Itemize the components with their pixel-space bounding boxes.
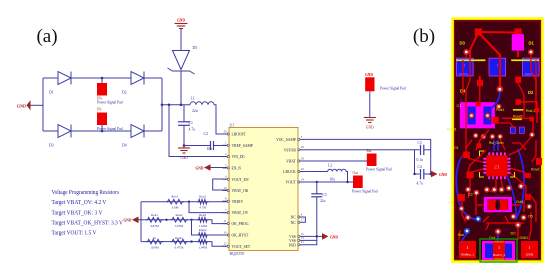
silkscreen resistor bar Rok3 xyxy=(512,119,522,121)
svg-text:C1: C1 xyxy=(457,104,462,108)
svg-text:D3: D3 xyxy=(49,144,54,148)
component IC U1 (PCB) xyxy=(483,152,510,179)
component L2 footprint xyxy=(484,197,512,212)
svg-text:VOUT_SET: VOUT_SET xyxy=(232,245,251,249)
pin 3 VOC_SAMP xyxy=(276,135,304,142)
wire bridge output to L1 xyxy=(162,104,190,106)
svg-text:O1: O1 xyxy=(454,146,459,150)
via top right xyxy=(528,49,534,55)
svg-text:C3: C3 xyxy=(468,193,473,197)
svg-text:GND: GND xyxy=(366,126,374,130)
svg-text:18: 18 xyxy=(301,156,305,160)
wire VIN_DC net xyxy=(169,105,229,157)
svg-text:Target VBAT_OK_HYST: 3.3 V: Target VBAT_OK_HYST: 3.3 V xyxy=(52,219,124,226)
resistor Rok1 4.87M xyxy=(146,213,163,228)
svg-text:VOUT: VOUT xyxy=(286,181,297,185)
resistor Rout1 0.475k xyxy=(171,236,189,250)
svg-text:C4: C4 xyxy=(448,201,453,205)
via left mid 2 xyxy=(473,190,479,196)
svg-text:Rout1: Rout1 xyxy=(447,128,457,132)
via bottom 2 xyxy=(475,216,481,222)
via L1 pad A xyxy=(469,113,475,119)
wire stub to IN- pad xyxy=(101,125,103,131)
node junction VIN branch xyxy=(168,104,171,107)
node VOUT/L2 junction xyxy=(346,181,348,183)
node junction top center xyxy=(101,77,104,80)
pin 8 VRDIV xyxy=(223,197,244,204)
wire trace top pad to center via xyxy=(479,33,500,88)
svg-text:NetD1_2: NetD1_2 xyxy=(524,72,537,76)
pad mid right top xyxy=(516,99,522,105)
via mid right low xyxy=(526,204,532,210)
svg-text:VREF_SAMP: VREF_SAMP xyxy=(232,144,253,148)
wire NC strap xyxy=(304,217,307,222)
pin 13 VBAT_OK xyxy=(223,186,249,193)
svg-text:14: 14 xyxy=(301,177,305,181)
svg-text:Power Signal Pad: Power Signal Pad xyxy=(366,168,392,172)
svg-text:VOUT_EN: VOUT_EN xyxy=(232,178,249,182)
svg-text:VSTOR: VSTOR xyxy=(284,148,297,152)
svg-text:EN_N: EN_N xyxy=(232,167,242,171)
wire VSS strap vertical xyxy=(316,236,318,240)
via bat xyxy=(464,228,470,234)
pin 17 NC xyxy=(291,218,305,225)
svg-text:U1: U1 xyxy=(230,123,235,127)
pad right edge xyxy=(536,158,542,165)
svg-text:C5: C5 xyxy=(323,193,327,197)
svg-text:Bat: Bat xyxy=(458,233,465,237)
pad left of L2 xyxy=(458,194,465,201)
svg-text:VRDIV: VRDIV xyxy=(232,200,244,204)
svg-text:Rok1: Rok1 xyxy=(151,213,158,217)
PCB board background xyxy=(453,19,543,262)
svg-text:GND: GND xyxy=(330,235,338,239)
via ic row 2 xyxy=(491,187,497,193)
node Rok1/Rok2 junction xyxy=(165,219,167,221)
svg-text:1.04M: 1.04M xyxy=(198,246,207,250)
pad GND Power Signal Pad xyxy=(365,73,406,91)
diode D4 xyxy=(122,125,144,148)
ground earth symbol xyxy=(364,118,376,130)
via row b xyxy=(481,134,487,140)
pin 7 VBAT_OV xyxy=(223,208,249,215)
wire trace top left pad to D5 xyxy=(478,31,518,34)
via ic row 3 xyxy=(499,187,505,193)
wire GND to bridge left rail xyxy=(31,104,44,106)
wire trace resistor row xyxy=(502,117,530,119)
svg-text:Rok3: Rok3 xyxy=(199,213,206,217)
component C5 footprint with courtyard xyxy=(480,239,517,262)
svg-text:LBUCK: LBUCK xyxy=(283,170,296,174)
svg-text:4.7M: 4.7M xyxy=(199,206,206,210)
pin 19 VSTOR xyxy=(284,145,305,152)
pin 15 VSS xyxy=(289,232,305,239)
svg-text:1: 1 xyxy=(464,64,466,68)
wire trace module1 to pad xyxy=(479,76,481,80)
svg-text:VBAT_OV: VBAT_OV xyxy=(232,211,249,215)
capacitor C2 xyxy=(204,132,214,151)
via gnd xyxy=(515,222,521,228)
svg-text:12: 12 xyxy=(224,242,228,246)
svg-text:4.87M: 4.87M xyxy=(150,224,159,228)
pad right edge mid xyxy=(530,117,535,122)
pin 14 VOUT xyxy=(286,177,305,184)
svg-text:Rov2: Rov2 xyxy=(199,195,206,199)
via out xyxy=(495,228,501,234)
svg-text:D4: D4 xyxy=(122,144,127,148)
capacitor C3 0.1u xyxy=(417,141,431,162)
via right mid xyxy=(518,183,524,189)
svg-text:Rst_Grmn: Rst_Grmn xyxy=(489,141,504,145)
component diode module 1 xyxy=(456,58,473,76)
node junction bottom center xyxy=(101,130,104,133)
svg-text:GND: GND xyxy=(17,103,26,108)
svg-text:GND: GND xyxy=(124,219,132,223)
wire VOC_SAMP net xyxy=(305,139,431,174)
svg-text:10.0M: 10.0M xyxy=(150,246,159,250)
wire bridge right rail xyxy=(161,78,163,131)
svg-text:LBOOST: LBOOST xyxy=(232,133,247,137)
via L1 pad B xyxy=(485,113,491,119)
component L1 footprint xyxy=(460,101,495,128)
pin 21 PAD xyxy=(289,240,305,247)
via row e xyxy=(529,132,535,138)
via row a xyxy=(473,133,479,139)
svg-text:VBAT: VBAT xyxy=(286,160,296,164)
wire VSS to GND xyxy=(305,235,322,237)
svg-text:C4: C4 xyxy=(418,165,422,169)
resistor Rov2 4.7M xyxy=(197,195,209,210)
svg-text:Target VOUT: 1.5 V: Target VOUT: 1.5 V xyxy=(52,230,97,237)
wire D5 to node xyxy=(180,71,182,105)
pin 20 LBOOST xyxy=(223,129,247,136)
svg-text:10: 10 xyxy=(224,230,228,234)
svg-text:Out1: Out1 xyxy=(516,200,523,204)
diode D1 xyxy=(49,72,71,95)
blue trace bottom center xyxy=(497,233,499,245)
blue trace bottom left diag xyxy=(459,233,467,248)
pad right of IC xyxy=(524,173,531,178)
svg-text:11: 11 xyxy=(224,219,227,223)
pin 4 VOUT_EN xyxy=(223,175,249,182)
svg-text:Voltage Programming Resistors: Voltage Programming Resistors xyxy=(52,189,120,196)
diode D3 xyxy=(49,125,71,148)
node VOUT/C5 junction xyxy=(316,181,318,183)
pad left of IC big xyxy=(467,171,474,178)
svg-text:0.1u: 0.1u xyxy=(417,158,423,162)
svg-text:GND: GND xyxy=(439,173,447,177)
svg-text:17: 17 xyxy=(301,218,305,222)
svg-text:BQ25570: BQ25570 xyxy=(230,252,245,256)
wire PCB red trace mesh xyxy=(459,55,536,240)
svg-text:D5: D5 xyxy=(193,46,198,50)
pad right of L1 xyxy=(492,117,498,124)
resistor Rov1 3.6M xyxy=(166,195,184,210)
wire trace D5 down xyxy=(517,50,519,57)
svg-text:21: 21 xyxy=(494,165,500,171)
svg-text:PAD: PAD xyxy=(289,243,296,247)
wire VRDIV row xyxy=(141,201,229,203)
svg-text:DC: DC xyxy=(511,232,517,236)
wire VBAT_OV jog xyxy=(189,202,229,213)
svg-text:NetC5_2: NetC5_2 xyxy=(493,253,506,257)
svg-text:Power Signal Pad: Power Signal Pad xyxy=(380,87,406,91)
svg-text:GND: GND xyxy=(196,166,204,170)
pin 18 VBAT xyxy=(286,156,304,163)
svg-text:4.7u: 4.7u xyxy=(189,128,196,132)
svg-text:1: 1 xyxy=(529,245,531,250)
ground GND (C3/C4) xyxy=(431,171,447,178)
svg-text:D2: D2 xyxy=(122,91,127,95)
wire bridge left rail xyxy=(42,78,44,131)
ground GND (above D5) xyxy=(175,19,188,29)
svg-text:Out: Out xyxy=(353,171,358,175)
svg-text:10u: 10u xyxy=(207,147,213,151)
pad top right xyxy=(514,28,521,35)
silkscreen IC corner brackets xyxy=(480,151,515,177)
pin 5 EN_N xyxy=(223,163,242,170)
via row d xyxy=(497,134,503,140)
wire VOUT net xyxy=(305,181,353,183)
svg-text:21: 21 xyxy=(301,240,305,244)
wire trace top pad down left xyxy=(470,33,478,57)
ground GND (VSS) xyxy=(322,233,338,240)
silkscreen resistor bar Rok2 xyxy=(513,109,525,111)
node VSS/C5 junction xyxy=(316,235,318,237)
svg-text:VBAT_OK: VBAT_OK xyxy=(232,189,249,193)
capacitor C5 22u xyxy=(311,182,327,236)
svg-text:3.6M: 3.6M xyxy=(172,206,179,210)
ground GND (left input) xyxy=(17,100,31,110)
blue trace bottom layer left arc xyxy=(456,158,481,221)
svg-text:Target VBAT_OV: 4.2 V: Target VBAT_OV: 4.2 V xyxy=(52,199,107,206)
blue trace mid diag xyxy=(507,176,516,220)
svg-text:Rok2: Rok2 xyxy=(176,213,183,217)
svg-text:1: 1 xyxy=(467,245,469,250)
svg-text:C3: C3 xyxy=(418,141,422,145)
pad above IC xyxy=(476,143,481,148)
via mid xyxy=(496,104,502,110)
svg-text:Rout1: Rout1 xyxy=(175,236,183,240)
pad Out Power Signal Pad xyxy=(352,171,378,194)
wire GND to bus xyxy=(139,219,142,221)
svg-text:GND: GND xyxy=(526,253,534,257)
wire trace pad to right edge xyxy=(520,102,537,123)
wire bridge top rail xyxy=(43,77,162,79)
svg-text:IN-: IN- xyxy=(97,108,103,112)
via row c xyxy=(490,134,496,140)
node C4 left xyxy=(413,173,415,175)
pin 1 VREF_SAMP xyxy=(223,141,253,148)
pad top left xyxy=(475,28,482,35)
via bottom 4 xyxy=(521,215,527,221)
inductor L1 22u xyxy=(190,97,214,113)
svg-text:1: 1 xyxy=(498,245,500,250)
svg-text:Rout2: Rout2 xyxy=(513,115,523,119)
via center big xyxy=(496,86,503,93)
wire bridge bottom rail xyxy=(43,130,162,132)
wire OK_PROG row xyxy=(141,220,229,224)
component D5 footprint xyxy=(512,34,524,50)
wire VBAT net xyxy=(305,160,367,162)
via left mid 1 xyxy=(465,187,471,193)
ground GND (EN_N) xyxy=(196,164,211,171)
svg-text:(b): (b) xyxy=(413,26,435,47)
pin 9 NC xyxy=(291,212,305,219)
svg-text:VOC_SAMP: VOC_SAMP xyxy=(276,138,296,142)
blue trace via to module xyxy=(492,92,500,108)
wire stub to IN+ pad xyxy=(101,78,103,83)
svg-text:L1: L1 xyxy=(191,97,195,101)
note text voltage programming resistors xyxy=(52,189,124,237)
node junction D5/C1 xyxy=(180,104,183,107)
pad right of L2 xyxy=(525,194,531,200)
svg-text:13: 13 xyxy=(224,186,228,190)
node Rok2/Rok3 junction xyxy=(190,219,192,221)
svg-text:D1: D1 xyxy=(529,41,535,46)
svg-text:1: 1 xyxy=(496,64,498,68)
pad Bat Power Signal Pad xyxy=(366,149,392,172)
via ic row 1 xyxy=(484,187,490,193)
wire VOUT_SET row xyxy=(141,242,229,247)
svg-text:10u: 10u xyxy=(330,178,336,182)
inductor L2 10u xyxy=(328,163,346,181)
component diode module 3 xyxy=(522,58,539,76)
svg-text:19: 19 xyxy=(301,145,305,149)
pad below module 3 xyxy=(515,77,521,83)
svg-text:Rov1: Rov1 xyxy=(172,195,179,199)
resistor R1 10.0M xyxy=(146,236,163,250)
pin 13 VSS xyxy=(289,236,305,243)
svg-text:R1: R1 xyxy=(153,236,157,240)
wire C2 to VREF_SAMP pin 1 xyxy=(214,145,229,147)
capacitor C1 xyxy=(178,105,195,146)
svg-text:Rov2: Rov2 xyxy=(531,168,539,172)
ground GND (below C1) xyxy=(178,146,190,161)
svg-text:NetD3_2: NetD3_2 xyxy=(458,72,471,76)
svg-text:D2: D2 xyxy=(528,90,534,95)
svg-text:C2: C2 xyxy=(204,132,209,136)
wire L2 to VOUT net xyxy=(346,172,347,183)
wire GND to EN_N pin xyxy=(211,167,230,169)
svg-text:Rok1: Rok1 xyxy=(496,108,504,112)
wire L1 to LBOOST pin 20 xyxy=(214,105,229,134)
silkscreen yellow bar right xyxy=(511,59,539,61)
svg-text:NC: NC xyxy=(291,221,297,225)
pin 2 VIN_DC xyxy=(223,152,246,159)
node bridge output xyxy=(161,104,164,107)
blue trace bottom layer right arc xyxy=(516,149,525,219)
wire VSTOR net xyxy=(305,149,420,151)
svg-text:OK_PROG: OK_PROG xyxy=(232,222,249,226)
svg-text:OK_HYST: OK_HYST xyxy=(232,234,250,238)
resistor Rok2 3.05M xyxy=(171,213,189,228)
silkscreen yellow bar left xyxy=(456,59,485,61)
svg-text:22u: 22u xyxy=(320,199,326,203)
component diode module 2 xyxy=(489,58,506,76)
pad IN+ Power Signal Pad xyxy=(97,83,123,105)
svg-text:VSS: VSS xyxy=(289,239,296,243)
pad right edge mid2 xyxy=(535,108,540,113)
pin 16 LBUCK xyxy=(283,167,304,174)
svg-text:GND: GND xyxy=(177,19,185,23)
pad IN- Power Signal Pad xyxy=(97,108,123,132)
svg-text:O5: O5 xyxy=(528,215,533,219)
diode D2 xyxy=(122,72,144,95)
wire resistor bus vertical xyxy=(140,202,142,242)
PCB inner red outline xyxy=(455,21,540,259)
via bottom 3 xyxy=(510,214,516,220)
svg-text:D1: D1 xyxy=(49,91,54,95)
op-amp U1 BQ25570 body xyxy=(229,123,298,256)
blue trace center vertical pair xyxy=(493,140,495,151)
pad left of IC upper xyxy=(463,152,470,159)
resistor Rout2 1.04M xyxy=(197,228,209,237)
node Rov1/Rov2 junction xyxy=(188,201,190,203)
pad GND bottom xyxy=(521,241,538,258)
svg-text:NC: NC xyxy=(291,216,297,220)
svg-text:Power Signal Pad: Power Signal Pad xyxy=(97,101,123,105)
svg-text:0.475k: 0.475k xyxy=(175,246,184,250)
wire VOUT_EN to VBAT_OK strap xyxy=(213,179,229,190)
svg-text:Power Signal Pad: Power Signal Pad xyxy=(352,190,378,194)
pin 12 VOUT_SET xyxy=(223,242,251,249)
svg-text:3.05M: 3.05M xyxy=(175,224,184,228)
svg-text:VIN_DC: VIN_DC xyxy=(232,155,246,159)
wire LBUCK net xyxy=(305,171,328,173)
wire VSTOR drop to C4 xyxy=(415,150,420,174)
node C4 right xyxy=(430,173,432,175)
svg-text:Target VBAT_OK: 3 V: Target VBAT_OK: 3 V xyxy=(52,209,103,216)
svg-text:Rout2: Rout2 xyxy=(199,228,207,232)
svg-text:13: 13 xyxy=(301,236,305,240)
pad NetBat_1 xyxy=(459,241,476,258)
pin 11 OK_PROG xyxy=(223,219,249,226)
ground GND (resistor bus) xyxy=(124,217,139,224)
wire OK_HYST jog xyxy=(192,220,230,235)
svg-text:L2: L2 xyxy=(328,163,332,167)
component small cap B xyxy=(519,127,524,133)
resistor Rok3 1.43M xyxy=(197,213,209,228)
svg-text:NetBat_1: NetBat_1 xyxy=(461,253,474,257)
svg-text:D3: D3 xyxy=(460,41,466,46)
capacitor C4 4.7u xyxy=(417,165,431,185)
svg-text:Bat: Bat xyxy=(367,149,372,153)
svg-text:C1: C1 xyxy=(189,121,194,125)
diode D5 (TVS) xyxy=(168,46,198,74)
resistor Rout3 1.04M xyxy=(197,239,209,249)
via mid left low xyxy=(459,206,465,212)
svg-text:16: 16 xyxy=(301,167,305,171)
svg-text:20: 20 xyxy=(224,129,228,133)
via ic row 4 xyxy=(506,185,512,191)
pad below module 1 xyxy=(477,80,483,86)
node C1 bottom xyxy=(183,144,186,147)
via bottom 1 xyxy=(465,215,471,221)
node Rout1/Rout3 junction xyxy=(190,240,192,242)
svg-text:GND: GND xyxy=(520,236,529,240)
wire C1 node to C2 xyxy=(184,145,210,147)
svg-text:GND: GND xyxy=(365,73,373,77)
wire GND to D5 xyxy=(180,29,182,51)
svg-text:(a): (a) xyxy=(36,26,57,47)
svg-text:Rok 2: Rok 2 xyxy=(526,109,535,113)
wire pad to earth xyxy=(369,91,371,117)
pin 10 OK_HYST xyxy=(223,230,250,237)
via top left xyxy=(463,49,469,55)
svg-text:22u: 22u xyxy=(192,109,198,113)
component small cap A xyxy=(510,127,515,133)
